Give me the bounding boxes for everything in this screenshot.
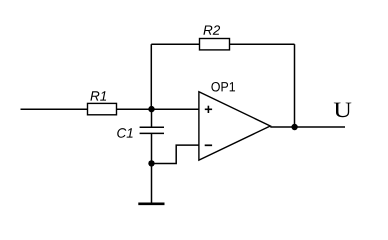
op-amp OP1 triangle: [199, 92, 270, 160]
ground: [138, 203, 164, 206]
wire: node B down to ground: [151, 164, 153, 204]
wire: feedback top-left horizontal to R2: [151, 43, 199, 45]
label U (output voltage): [334, 103, 352, 118]
wire: C1 bottom plate down to node B: [151, 133, 153, 163]
capacitor C1: [140, 127, 164, 133]
label R2: [203, 25, 220, 34]
wire: feedback right vertical down to output node: [294, 44, 296, 127]
wire: node A down to C1 top plate: [151, 109, 153, 127]
wire: node A to op-amp + input: [152, 108, 200, 110]
wire: node B to op-amp - input (right, up, right): [152, 145, 200, 163]
resistor R2: [200, 39, 230, 50]
wire: feedback top-right horizontal from R2: [230, 43, 295, 45]
label OP1: [211, 82, 235, 92]
label C1: [117, 128, 132, 138]
wire: input lead to R1: [21, 108, 88, 110]
node A: junction of R1, C1, feedback: [148, 106, 154, 112]
op-amp - input pin mark: [205, 144, 212, 146]
wire: feedback left vertical (node A up to R2 row): [150, 44, 152, 109]
op-amp + input pin mark: [205, 106, 212, 113]
wire: R1 to node A: [117, 108, 152, 110]
resistor R1: [88, 103, 117, 114]
node C: output junction with feedback: [291, 124, 297, 130]
node B: junction of C1, ground lead, op-amp - input: [148, 160, 154, 166]
label R1: [90, 91, 106, 100]
wire: op-amp output to node C and out: [270, 126, 345, 128]
